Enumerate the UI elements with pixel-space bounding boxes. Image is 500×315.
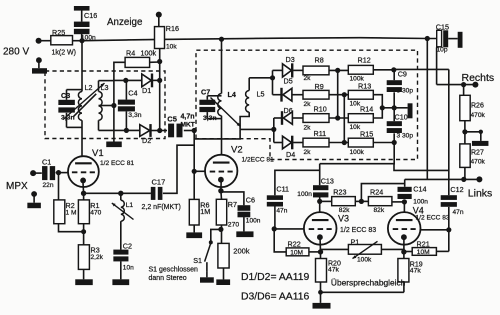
svg-text:82k: 82k: [374, 207, 385, 214]
wire node up right: [361, 184, 404, 202]
svg-text:2k: 2k: [304, 75, 312, 82]
resistor R23: [332, 187, 356, 214]
label V1: [92, 148, 134, 167]
svg-text:C6: C6: [246, 195, 255, 204]
wire V2 cathode: [218, 180, 223, 194]
svg-text:2,2 nF(MKT): 2,2 nF(MKT): [142, 204, 181, 211]
wire C17 to V2 grid: [163, 145, 194, 193]
ground under C6: [236, 217, 253, 237]
triode V3: [304, 212, 337, 245]
wire C14 to V4 plate: [402, 199, 407, 212]
resistor R26: [460, 95, 486, 120]
wire R21 to grid: [436, 250, 448, 252]
svg-text:R11: R11: [314, 129, 327, 138]
wire C11 to V3 grid: [272, 206, 277, 231]
wire V2 plate feed: [221, 39, 223, 93]
svg-text:1/2 ECC 83: 1/2 ECC 83: [340, 227, 376, 234]
wire L4 to V2 plate: [221, 116, 223, 155]
resistor R8: [303, 55, 329, 82]
svg-text:100k: 100k: [357, 256, 372, 263]
svg-text:R26: R26: [471, 103, 484, 110]
label 280V: [3, 47, 29, 58]
label Uebersprechabgleich: [331, 278, 406, 288]
svg-text:1 M: 1 M: [66, 209, 77, 216]
svg-text:1M: 1M: [200, 207, 210, 216]
ground output stage: [313, 292, 331, 308]
svg-text:D6: D6: [284, 106, 293, 115]
wire matrix down left: [320, 143, 395, 164]
svg-text:D1/D2= AA119: D1/D2= AA119: [241, 272, 309, 283]
svg-text:100n: 100n: [246, 218, 261, 225]
ground chassis near 280V: [32, 57, 47, 73]
svg-text:1/2 ECC 83: 1/2 ECC 83: [416, 215, 450, 222]
label V3: [338, 214, 376, 235]
wire ground branch x114: [111, 80, 116, 142]
svg-text:47k: 47k: [410, 267, 422, 274]
resistor R3: [78, 245, 103, 270]
wire V3 grid: [274, 228, 304, 230]
wire diode tie lower: [273, 118, 275, 143]
svg-text:C12: C12: [450, 185, 463, 194]
svg-text:47n: 47n: [276, 208, 287, 215]
svg-text:P1: P1: [351, 237, 360, 246]
svg-text:R12: R12: [358, 55, 371, 64]
svg-text:3 30p: 3 30p: [397, 88, 414, 95]
wire tap to V2 grid: [194, 129, 240, 139]
node B+ junction: [79, 38, 84, 43]
svg-text:C2: C2: [123, 242, 132, 251]
resistor R21: [404, 239, 437, 256]
wire grid down R22: [274, 229, 286, 252]
wire R16 down: [157, 49, 162, 134]
resistor R15: [348, 129, 373, 156]
svg-text:C14: C14: [413, 184, 426, 193]
label Anzeige: [107, 17, 143, 28]
label D1 D2 AA119: [241, 272, 309, 283]
svg-text:Anzeige: Anzeige: [107, 17, 143, 28]
svg-text:C17: C17: [152, 178, 166, 187]
wire diode tie upper: [272, 70, 274, 94]
wire C13 to V3 plate: [317, 195, 322, 212]
svg-text:D3: D3: [286, 55, 295, 64]
wire D3 to R8: [293, 69, 303, 71]
resistor R6: [189, 199, 210, 225]
wire V3 cathode: [319, 237, 322, 252]
wire tie R9 R11: [343, 95, 345, 143]
wire D5 to R9: [292, 94, 303, 96]
svg-text:R25: R25: [52, 28, 65, 37]
resistor R25: [51, 28, 76, 57]
wire L2 to V1 plate: [81, 120, 83, 156]
wire D1 anode row: [114, 78, 142, 83]
wire R23 R24 node: [355, 199, 368, 204]
label Rechts: [462, 72, 495, 84]
diode D6: [274, 106, 293, 125]
wire R10 out: [329, 115, 348, 120]
dashed box left tuned circuit: [45, 71, 165, 139]
wire right vert x449: [448, 69, 450, 179]
svg-text:22n: 22n: [43, 182, 54, 189]
wire L3 bottom row: [99, 120, 140, 133]
ground under R3: [75, 269, 93, 285]
coupling arrow L2 L3: [63, 83, 105, 120]
wire Rechts: [437, 82, 479, 88]
triode V4: [388, 212, 421, 245]
capacitor C11: [267, 185, 289, 215]
wire cathode bottoms: [318, 282, 404, 295]
svg-text:R22: R22: [288, 239, 301, 248]
terminal MPX: [30, 170, 42, 176]
wire matrix jog right: [394, 164, 449, 171]
svg-text:10n: 10n: [123, 264, 134, 271]
wire C14 stub: [404, 179, 406, 186]
svg-text:C15: C15: [436, 22, 449, 31]
ground right of C15: [458, 32, 463, 48]
svg-text:V3: V3: [338, 214, 349, 224]
wire R15 out: [373, 140, 397, 145]
wire C15 to ground: [448, 38, 458, 40]
wire P1 right: [381, 249, 404, 252]
svg-text:4,7n: 4,7n: [181, 114, 195, 121]
svg-text:C4: C4: [128, 89, 137, 98]
svg-text:R13: R13: [358, 81, 371, 90]
wire v2 down: [426, 39, 428, 180]
svg-text:270: 270: [228, 221, 240, 228]
svg-text:C5: C5: [167, 114, 177, 123]
svg-text:MKT: MKT: [181, 122, 195, 129]
svg-text:C10: C10: [395, 113, 408, 122]
diode D2: [140, 124, 151, 145]
svg-text:280 V: 280 V: [3, 47, 29, 58]
svg-text:dann Stereo: dann Stereo: [149, 275, 187, 282]
capacitor C7: [199, 88, 221, 122]
wire C11 top link: [275, 170, 320, 195]
node V2 plate feed: [219, 37, 224, 42]
resistor R7: [216, 191, 239, 229]
wire L5 top to diodes: [249, 75, 275, 80]
svg-text:D5: D5: [284, 76, 293, 85]
potentiometer P1: [348, 237, 381, 263]
svg-text:Übersprechabgleich: Übersprechabgleich: [331, 278, 406, 288]
label D3 D6 AA116: [241, 292, 309, 303]
svg-text:47k: 47k: [328, 267, 340, 274]
terminal Anzeige: [156, 12, 162, 27]
capacitor C12: [441, 179, 464, 215]
wire L3 tap: [99, 105, 114, 107]
ground chassis near MPX: [27, 191, 40, 208]
svg-text:10p: 10p: [437, 47, 448, 54]
ground under S1: [200, 272, 214, 283]
ground under R6: [186, 225, 202, 238]
svg-text:R23: R23: [333, 187, 346, 196]
svg-text:R24: R24: [370, 187, 383, 196]
wire L5 bottom tap: [240, 112, 249, 129]
svg-text:C3: C3: [61, 91, 70, 100]
wire R12 out: [373, 67, 396, 72]
svg-text:47n: 47n: [453, 209, 464, 216]
wire R24 to C14 node: [392, 201, 405, 203]
svg-text:V2: V2: [231, 145, 243, 156]
wire R13 out: [373, 95, 382, 108]
svg-text:V1: V1: [92, 148, 104, 159]
svg-text:R4: R4: [126, 48, 135, 57]
wire C15 plate down: [436, 47, 438, 84]
wire R26 bottom: [462, 121, 467, 144]
svg-text:R21: R21: [417, 239, 430, 248]
resistor 200k: [218, 243, 250, 268]
wire V4 cathode: [401, 237, 406, 255]
svg-text:Links: Links: [468, 188, 493, 200]
svg-text:470k: 470k: [471, 112, 486, 119]
svg-text:3 30p: 3 30p: [397, 133, 414, 140]
wire R14 out: [373, 105, 385, 118]
svg-text:1k(2 W): 1k(2 W): [52, 50, 77, 57]
capacitor C16: [74, 10, 97, 41]
wire tap to lower tie: [240, 127, 276, 132]
svg-text:R14: R14: [360, 105, 373, 114]
ground mid divider: [465, 130, 489, 146]
svg-text:L2: L2: [85, 83, 93, 92]
wire B+ into L2: [81, 41, 83, 92]
ground under C2: [112, 261, 129, 285]
wire V4 grid: [421, 229, 449, 231]
inductor L5: [246, 78, 265, 112]
wire R1 to R3: [81, 224, 86, 245]
svg-text:D4: D4: [286, 150, 295, 159]
inductor L2: [78, 83, 92, 120]
capacitor C10: [387, 108, 414, 140]
resistor R19: [398, 252, 423, 282]
ground matrix mid: [394, 103, 412, 118]
svg-text:L1: L1: [126, 202, 134, 209]
resistor R16: [155, 24, 179, 51]
svg-text:C7: C7: [201, 88, 210, 97]
capacitor C4: [118, 80, 142, 130]
resistor R14: [348, 105, 373, 132]
svg-text:470: 470: [90, 209, 101, 216]
svg-text:3,3n: 3,3n: [128, 112, 141, 119]
wire R9 out: [329, 92, 348, 97]
wire R27 bottom: [464, 167, 466, 179]
wire D2 to C5: [152, 130, 168, 132]
svg-text:R15: R15: [360, 129, 373, 138]
svg-text:2k: 2k: [304, 149, 312, 156]
svg-text:C16: C16: [84, 11, 97, 20]
label V4: [413, 206, 450, 222]
resistor R10: [303, 104, 329, 131]
diode D1: [142, 74, 152, 96]
ground under 200k: [216, 268, 230, 285]
capacitor C5: [167, 114, 194, 138]
wire R4 left: [114, 62, 125, 80]
svg-text:2k: 2k: [304, 124, 312, 131]
wire R22 to cathode: [309, 249, 323, 254]
svg-text:C13: C13: [321, 177, 334, 186]
wire D4 to R11: [293, 142, 303, 144]
svg-text:10k: 10k: [166, 44, 177, 51]
diode D3: [273, 55, 295, 78]
wire R4 right: [150, 61, 160, 63]
wire row1 to right: [394, 68, 449, 70]
wire C13 top: [319, 164, 321, 186]
inductor L1: [112, 193, 134, 221]
capacitor C13: [297, 177, 334, 198]
wire grid node down: [192, 131, 197, 200]
svg-text:S1 geschlossen: S1 geschlossen: [149, 267, 199, 274]
svg-text:C11: C11: [276, 185, 289, 194]
label V2: [231, 145, 274, 164]
resistor R12: [348, 55, 373, 82]
svg-text:R9: R9: [315, 82, 324, 91]
capacitor C17: [142, 178, 181, 212]
svg-text:10M: 10M: [417, 249, 430, 256]
wire V2 grid: [194, 170, 205, 172]
inductor L3: [99, 81, 114, 121]
wire C12 to V4 grid: [446, 207, 451, 252]
resistor R13: [348, 81, 373, 107]
svg-text:R8: R8: [315, 55, 324, 64]
svg-text:L4: L4: [228, 90, 236, 99]
svg-text:2k: 2k: [304, 101, 312, 108]
wire R7 bottom node: [218, 225, 223, 243]
arrow P1: [353, 241, 378, 258]
resistor R24: [368, 187, 392, 214]
wire C10 to row4: [393, 133, 395, 142]
svg-text:1/2 ECC 81: 1/2 ECC 81: [100, 160, 134, 167]
wire R11 out: [329, 140, 348, 145]
resistor R20: [316, 252, 341, 282]
svg-text:R27: R27: [471, 150, 484, 157]
label S1 geschlossen: [149, 267, 199, 283]
wire L1 to C2: [120, 221, 122, 249]
svg-text:S1: S1: [193, 256, 202, 265]
svg-text:100n: 100n: [413, 198, 428, 205]
wire D1 cathode: [153, 79, 160, 81]
wire V1 cathode: [81, 181, 86, 196]
capacitor C3: [58, 90, 82, 128]
triode V2: [205, 155, 237, 187]
wire C9 to mid: [393, 92, 395, 108]
wire C1 to grid: [56, 170, 69, 175]
wire cathode rail: [84, 191, 151, 196]
resistor R4: [125, 48, 156, 67]
ground above C16: [74, 6, 90, 11]
inductor L4: [218, 90, 236, 116]
diode D5: [273, 76, 293, 101]
capacitor C1: [42, 158, 55, 190]
svg-text:R7: R7: [228, 200, 237, 209]
wire R8 out: [329, 68, 348, 73]
dashed box right tuned circuit: [196, 50, 418, 159]
svg-text:MPX: MPX: [6, 181, 28, 192]
wire to R23: [320, 200, 332, 202]
ground under C4 branch: [106, 142, 122, 148]
svg-text:D2: D2: [142, 136, 151, 145]
diode D4: [274, 136, 295, 159]
svg-text:C1: C1: [42, 158, 51, 167]
svg-text:200k: 200k: [233, 247, 250, 256]
svg-text:L5: L5: [257, 90, 265, 99]
wire R25 to node: [73, 40, 83, 42]
node C15: [425, 36, 430, 41]
resistor R9: [303, 82, 329, 108]
svg-text:470k: 470k: [471, 159, 486, 166]
svg-text:D3/D6= AA116: D3/D6= AA116: [241, 292, 309, 303]
svg-text:100k: 100k: [350, 149, 365, 156]
wire grid down R2: [58, 173, 60, 200]
wire D6 to R10: [293, 117, 304, 119]
arrow L4: [211, 98, 241, 127]
label MPX: [6, 181, 28, 192]
svg-text:C9: C9: [398, 69, 407, 78]
wire tie R8 R10: [337, 70, 339, 118]
wire to R26: [463, 85, 465, 96]
label Links: [468, 188, 493, 200]
wire mid node to C9C10: [382, 105, 397, 110]
svg-text:R16: R16: [166, 24, 179, 33]
capacitor C6: [221, 192, 261, 225]
svg-text:3,3n: 3,3n: [203, 115, 217, 122]
svg-text:1/2ECC 81: 1/2ECC 81: [242, 157, 275, 164]
svg-text:10M: 10M: [290, 250, 303, 257]
capacitor C15: [436, 22, 449, 53]
wire to S1: [211, 229, 221, 241]
resistor R1: [78, 193, 101, 223]
resistor R2: [54, 200, 77, 224]
svg-text:D1: D1: [142, 86, 151, 95]
svg-text:100n: 100n: [297, 191, 312, 198]
terminal 280V: [36, 38, 51, 44]
wire C5 to grid node: [184, 128, 197, 133]
switch S1: [193, 240, 213, 271]
capacitor C14: [398, 184, 429, 205]
wire to P1 left: [321, 249, 349, 252]
resistor R22: [286, 239, 309, 256]
wire Links rail: [405, 176, 483, 182]
resistor R27: [460, 144, 486, 168]
svg-text:2,2k: 2,2k: [91, 254, 104, 261]
svg-text:R10: R10: [314, 104, 327, 113]
capacitor C2: [113, 242, 134, 272]
svg-text:Rechts: Rechts: [462, 72, 495, 84]
wire top rail H1: [82, 38, 437, 41]
wire R2 bottom: [59, 224, 84, 232]
triode V1: [68, 156, 99, 187]
resistor R11: [303, 129, 329, 156]
capacitor C9: [387, 69, 414, 94]
svg-text:100k: 100k: [141, 48, 157, 57]
